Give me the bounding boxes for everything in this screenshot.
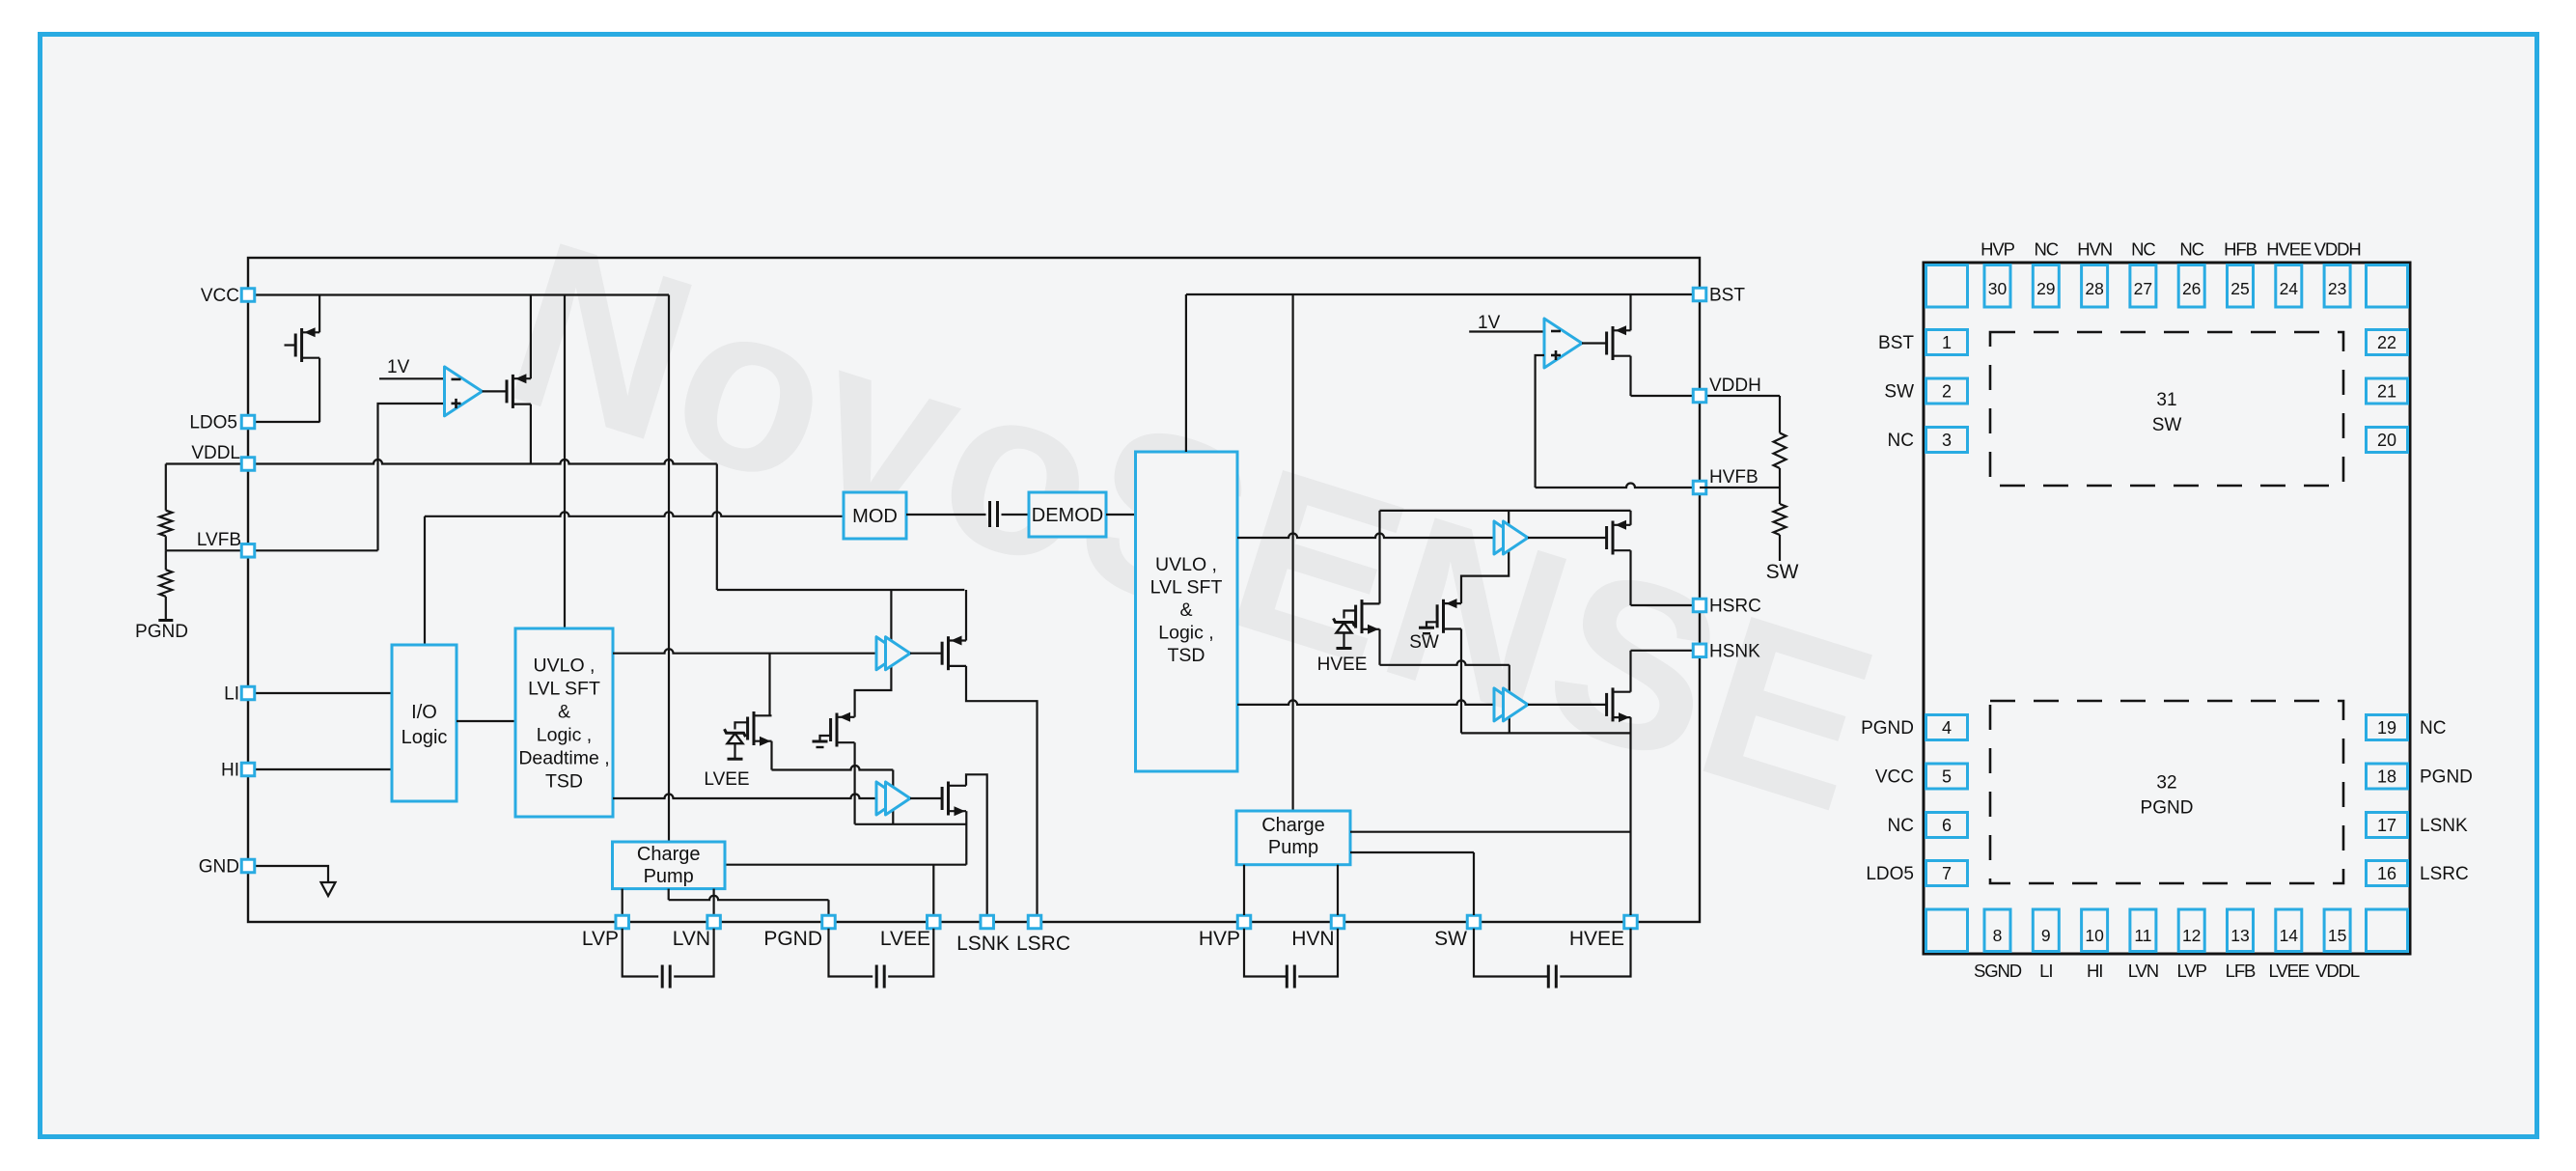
wire M4 source down [965, 811, 967, 865]
wire HSRC [1631, 604, 1701, 606]
svg-text:LSRC: LSRC [1016, 933, 1070, 955]
PGND terminal bar [158, 619, 173, 622]
transistor M3 source driver [941, 642, 944, 665]
svg-text:&: & [558, 702, 570, 723]
wire BST down to UVLO2 [1185, 294, 1187, 452]
buffer B3 [1494, 521, 1518, 554]
svg-text:PGND: PGND [2420, 767, 2473, 788]
pin 28 HVN (top) [2082, 265, 2108, 308]
svg-text:23: 23 [2328, 279, 2346, 298]
pin GND [241, 859, 255, 873]
svg-text:Charge: Charge [1261, 815, 1325, 836]
wire M1H source to lower rail start [1378, 629, 1380, 665]
pin 29 NC (top) [2033, 265, 2059, 308]
wire R2 source to HVEE pin [1629, 717, 1631, 915]
UVLO2 lower output line [1237, 700, 1494, 705]
pin 8 SGND (bottom) [1984, 909, 2010, 952]
wire U1 output to M2 gate [483, 390, 508, 392]
svg-text:8: 8 [1993, 926, 2003, 945]
pin 23 VDDH (top) [2324, 265, 2350, 308]
svg-text:PGND: PGND [2141, 798, 2194, 819]
svg-text:1V: 1V [387, 357, 410, 377]
wire B2 to M4 gate [910, 797, 942, 799]
svg-text:Charge: Charge [637, 844, 701, 865]
resistor R_HV1 [1774, 433, 1787, 469]
UVLO1 lower output line [613, 795, 876, 798]
wire HVFB to R_HV2 [1700, 487, 1780, 488]
svg-text:LVN: LVN [2128, 961, 2158, 981]
svg-text:HSNK: HSNK [1709, 641, 1760, 661]
zener D2 HVEE clamp [1344, 611, 1356, 619]
upper rail VDDH for driver [1380, 510, 1631, 512]
pin 27 NC (top) [2130, 265, 2156, 308]
svg-text:3: 3 [1942, 431, 1952, 450]
svg-text:LVN: LVN [673, 928, 710, 950]
svg-text:NC: NC [2179, 239, 2203, 260]
svg-text:HI: HI [2087, 961, 2102, 981]
svg-text:&: & [1179, 599, 1192, 621]
svg-text:LVEE: LVEE [2269, 961, 2310, 981]
transistor M1L with zener clamp [746, 717, 749, 740]
transistor M2 [506, 379, 509, 403]
buffer B4 [1494, 688, 1518, 721]
svg-text:LDO5: LDO5 [189, 413, 237, 433]
wire LDO5 [248, 421, 320, 423]
capacitor C2 PGND-LVEE [829, 929, 873, 977]
pin HVEE [1624, 915, 1638, 929]
pin 18 (right) [2367, 764, 2408, 789]
svg-text:5: 5 [1942, 767, 1952, 787]
package outline [1924, 263, 2410, 954]
transistor R2 sink driver [1605, 693, 1608, 716]
svg-text:22: 22 [2377, 333, 2396, 352]
svg-text:20: 20 [2377, 431, 2396, 450]
svg-text:LVL SFT: LVL SFT [1150, 577, 1223, 599]
svg-text:Logic: Logic [402, 727, 448, 748]
pin 25 HFB (top) [2228, 265, 2254, 308]
svg-text:VCC: VCC [1875, 767, 1914, 788]
pin 5 VCC (left) [1926, 764, 1968, 789]
svg-text:1: 1 [1942, 333, 1952, 352]
wire CP1 to LVN [712, 889, 714, 915]
svg-text:HI: HI [221, 761, 239, 781]
wire rail down to buffer B1 supply [855, 590, 892, 717]
svg-text:28: 28 [2085, 279, 2103, 298]
pin 6 NC (left) [1926, 813, 1968, 838]
svg-text:Pump: Pump [644, 866, 694, 887]
lower supply rail [855, 823, 967, 825]
svg-text:19: 19 [2377, 718, 2396, 738]
wire GND to ground symbol [248, 866, 328, 882]
MOD input line [425, 512, 844, 516]
resistor R_LV2 [159, 570, 172, 597]
pin 19 (right) [2367, 715, 2408, 740]
wire VDDL [166, 460, 717, 464]
svg-text:LVFB: LVFB [197, 530, 241, 550]
svg-text:HFB: HFB [2224, 239, 2257, 260]
corner pad bottom-right [2367, 909, 2408, 952]
buffer B2 [876, 782, 900, 815]
capacitor C3 HVP-HVN [1244, 929, 1287, 977]
wire LVFB to R_LV2 [165, 550, 167, 570]
pin VCC [241, 289, 255, 302]
svg-text:SW: SW [2152, 415, 2182, 435]
pin 3 NC (left) [1926, 428, 1968, 453]
svg-text:VDDH: VDDH [2314, 239, 2361, 260]
svg-text:Pump: Pump [1268, 837, 1318, 858]
svg-text:HSRC: HSRC [1709, 597, 1761, 617]
wire VDDL stub to divider [165, 464, 167, 511]
wire VCC drop to UVLO block [564, 295, 566, 629]
svg-text:GND: GND [199, 857, 239, 878]
buffer B2 supply drop [892, 770, 894, 824]
svg-text:TSD: TSD [1168, 645, 1205, 666]
lower supply rail right [1461, 732, 1631, 734]
svg-text:9: 9 [2041, 926, 2051, 945]
svg-text:32: 32 [2156, 773, 2176, 794]
pin HI [241, 763, 255, 776]
svg-text:14: 14 [2280, 926, 2299, 945]
wire I/O logic top to MOD line [424, 516, 426, 645]
svg-text:LVEE: LVEE [704, 769, 749, 790]
wire M4 drain to LSNK [966, 774, 987, 915]
wire BST rail [1186, 293, 1700, 295]
pin VDDH [1693, 389, 1706, 403]
wire M2L source down [853, 742, 855, 824]
svg-text:Deadtime ,: Deadtime , [518, 748, 609, 769]
svg-text:HVEE: HVEE [1569, 928, 1624, 950]
comparator U1 [445, 367, 483, 416]
pin 13 LFB (bottom) [2228, 909, 2254, 952]
svg-text:NC: NC [1888, 431, 1914, 451]
1V reference into comparator U2 [1469, 330, 1544, 332]
wire CP2 to HVP [1243, 865, 1245, 915]
svg-text:HVEE: HVEE [2266, 239, 2312, 260]
svg-text:7: 7 [1942, 864, 1952, 883]
pin LVEE [928, 915, 941, 929]
pin 1 BST (left) [1926, 330, 1968, 355]
ground symbol at GND [321, 882, 336, 896]
pin SW [1467, 915, 1481, 929]
svg-text:BST: BST [1709, 286, 1745, 306]
UVLO2 upper output line [1237, 534, 1494, 539]
comparator U2 [1544, 319, 1582, 368]
Charge Pump CP1 block [613, 842, 726, 889]
svg-text:VCC: VCC [201, 286, 239, 306]
pin HSNK [1693, 644, 1706, 657]
svg-text:HVP: HVP [1199, 928, 1240, 950]
svg-text:15: 15 [2328, 926, 2346, 945]
pin HVN [1331, 915, 1344, 929]
pin 26 NC (top) [2178, 265, 2204, 308]
svg-text:29: 29 [2036, 279, 2055, 298]
wire HVFB to U2 plus input [1536, 355, 1544, 488]
wire M1L drain to input line [768, 654, 770, 716]
wire HSNK [1631, 650, 1701, 652]
pin 11 LVN (bottom) [2130, 909, 2156, 952]
corner pad top-left [1926, 265, 1968, 308]
svg-text:HVEE: HVEE [1317, 655, 1368, 675]
pin LDO5 [241, 415, 255, 429]
svg-text:16: 16 [2377, 864, 2396, 883]
pin 12 LVP (bottom) [2178, 909, 2204, 952]
svg-text:4: 4 [1942, 718, 1952, 738]
pin HVP [1237, 915, 1251, 929]
svg-text:MOD: MOD [852, 506, 898, 527]
wire B3 to R1 gate [1528, 537, 1607, 539]
svg-text:10: 10 [2085, 926, 2104, 945]
buffer supply rail mid [1380, 660, 1510, 665]
wire HI [248, 768, 392, 770]
pin BST [1693, 288, 1706, 301]
gate SW of M2H [1426, 622, 1437, 627]
wire VDDL drop to upper rail [716, 464, 718, 591]
svg-text:TSD: TSD [545, 771, 583, 793]
svg-text:30: 30 [1988, 279, 2008, 298]
capacitor C4 SW-HVEE [1474, 929, 1548, 977]
svg-text:Logic ,: Logic , [537, 725, 592, 746]
wire CP2 out to HVEE line [1350, 831, 1631, 833]
svg-text:24: 24 [2280, 279, 2299, 298]
svg-text:VDDL: VDDL [191, 443, 240, 463]
wire DEMOD to UVLO2 [1106, 514, 1136, 516]
svg-text:LSRC: LSRC [2420, 864, 2469, 884]
SW terminal stub [1779, 535, 1781, 561]
svg-text:18: 18 [2377, 767, 2396, 787]
wire CP1 to LVP [622, 889, 623, 915]
svg-text:LDO5: LDO5 [1866, 864, 1914, 884]
wire divider middle [165, 536, 167, 550]
wire CP2 out to SW pin [1350, 851, 1474, 853]
svg-text:UVLO ,: UVLO , [534, 655, 596, 677]
pin 30 HVP (top) [1984, 265, 2010, 308]
pin 20 (right) [2367, 428, 2408, 453]
svg-text:LI: LI [224, 684, 239, 705]
transistor M4 sink driver [941, 787, 944, 810]
wire rail to R1 drain [1629, 511, 1631, 525]
wire B4 to R2 gate [1528, 704, 1607, 706]
svg-text:6: 6 [1942, 816, 1952, 835]
UVLO2 block [1136, 452, 1238, 771]
pin LI [241, 686, 255, 700]
pin LVFB [241, 544, 255, 558]
wire I/O logic to UVLO1 [457, 720, 515, 722]
pin 16 (right) [2367, 861, 2408, 886]
buffer B1 [876, 637, 900, 670]
wire VCC drop to charge pump [668, 295, 670, 843]
wire R1 source to HSRC [1629, 550, 1631, 605]
isolation capacitor C_ISO [906, 514, 986, 516]
capacitor C1 LVP-LVN [623, 929, 659, 977]
wire BST down to CP2 [1291, 294, 1293, 811]
pin 22 (right) [2367, 330, 2408, 355]
pad 31 SW dashed region [1990, 332, 2343, 486]
wire to PGND bar [165, 597, 167, 621]
svg-text:DEMOD: DEMOD [1032, 505, 1103, 526]
wire LVEE drop [932, 865, 934, 915]
pin 21 (right) [2367, 378, 2408, 404]
wire CP2 to HVN [1337, 865, 1339, 915]
UVLO1 upper output line [613, 649, 876, 654]
svg-text:SW: SW [1434, 928, 1467, 950]
pin 10 HI (bottom) [2082, 909, 2108, 952]
corner pad top-right [2367, 265, 2408, 308]
wire LVFB to comparator plus input [166, 549, 378, 551]
pin 4 PGND (left) [1926, 715, 1968, 740]
wire R2 drain to HSNK [1629, 651, 1631, 692]
svg-text:I/O: I/O [411, 702, 437, 723]
Charge Pump CP2 block [1236, 811, 1350, 865]
svg-text:VDDH: VDDH [1709, 376, 1761, 396]
transistor R1 source driver [1605, 526, 1608, 549]
MOD block [844, 492, 906, 539]
wire M3 source to LSRC [966, 666, 1038, 915]
svg-text:NC: NC [2420, 718, 2446, 739]
buffer B4 supply drop [1509, 665, 1510, 734]
svg-text:UVLO ,: UVLO , [1155, 554, 1217, 575]
svg-text:Logic ,: Logic , [1158, 623, 1213, 644]
svg-text:LFB: LFB [2226, 961, 2256, 981]
wire HVFB [1536, 484, 1700, 488]
transistor M1H with zener clamp [1354, 605, 1357, 628]
1V reference line into comparator U1 [379, 377, 445, 379]
svg-text:11: 11 [2134, 926, 2151, 945]
transistor M2L [829, 718, 832, 741]
wire LI [248, 692, 392, 694]
svg-text:12: 12 [2182, 926, 2201, 945]
wire M1L source rail [770, 741, 772, 770]
svg-text:HVFB: HVFB [1709, 467, 1759, 488]
svg-text:NC: NC [2035, 239, 2059, 260]
pin LSNK [981, 915, 993, 929]
gate driver IC boundary box [248, 258, 1700, 922]
svg-text:BST: BST [1878, 333, 1914, 353]
UVLO1 block [515, 628, 613, 817]
pin VDDL [241, 458, 255, 471]
pin 2 SW (left) [1926, 378, 1968, 404]
pin 9 LI (bottom) [2033, 909, 2059, 952]
pin HVFB [1693, 481, 1706, 494]
svg-text:SW: SW [1884, 382, 1914, 403]
svg-text:LVP: LVP [2177, 961, 2207, 981]
wire VDDH [1631, 395, 1781, 397]
svg-text:13: 13 [2230, 926, 2249, 945]
svg-text:HVP: HVP [1980, 239, 2014, 260]
I/O Logic block [392, 645, 457, 801]
wire B1 to M3 gate [910, 653, 942, 655]
svg-text:SW: SW [1766, 561, 1799, 583]
wire CP1 to PGND [668, 889, 670, 901]
transistor M1 LDO pass FET [294, 334, 297, 357]
pin HSRC [1693, 599, 1706, 612]
pin LVP [616, 915, 629, 929]
svg-text:HVN: HVN [1291, 928, 1334, 950]
svg-text:PGND: PGND [763, 928, 822, 950]
svg-text:PGND: PGND [135, 622, 188, 642]
svg-text:LI: LI [2039, 961, 2052, 981]
svg-text:SGND: SGND [1974, 961, 2022, 981]
upper rail from VDDL [717, 589, 965, 591]
pin PGND [822, 915, 836, 929]
charge pump CP1 output rail [725, 864, 966, 866]
wire rail down left side [1378, 511, 1380, 604]
pin LSRC [1028, 915, 1041, 929]
svg-text:17: 17 [2377, 816, 2396, 835]
pin 17 (right) [2367, 813, 2408, 838]
svg-text:LVP: LVP [582, 928, 619, 950]
wire U2 output to R0 gate [1582, 342, 1607, 344]
transistor M2H SW clamp [1436, 604, 1439, 627]
pad 32 PGND dashed region [1990, 701, 2343, 883]
corner pad bottom-left [1926, 909, 1968, 952]
pin 15 VDDL (bottom) [2324, 909, 2350, 952]
svg-text:NC: NC [1888, 816, 1914, 836]
svg-text:25: 25 [2230, 279, 2249, 298]
svg-text:1V: 1V [1478, 313, 1501, 333]
svg-text:26: 26 [2182, 279, 2201, 298]
NOVOSENSE watermark [482, 191, 1903, 862]
svg-text:LSNK: LSNK [956, 933, 1010, 955]
svg-text:LVEE: LVEE [880, 928, 930, 950]
zener D1 LVEE clamp [735, 722, 748, 729]
svg-text:NC: NC [2131, 239, 2155, 260]
svg-text:SW: SW [1409, 632, 1439, 653]
svg-text:2: 2 [1942, 382, 1952, 402]
svg-text:27: 27 [2134, 279, 2152, 298]
pin 14 LVEE (bottom) [2276, 909, 2302, 952]
pin LVN [707, 915, 721, 929]
wire VCC [248, 293, 669, 295]
svg-text:HVN: HVN [2077, 239, 2112, 260]
svg-text:LVL SFT: LVL SFT [528, 679, 600, 700]
resistor R_HV2 [1774, 504, 1787, 535]
svg-text:LSNK: LSNK [2420, 816, 2468, 836]
svg-text:PGND: PGND [1861, 718, 1914, 739]
svg-text:VDDL: VDDL [2315, 961, 2360, 981]
resistor R_LV1 [159, 511, 172, 537]
gate ground of M2L [820, 736, 831, 741]
pin 7 LDO5 (left) [1926, 861, 1968, 886]
transistor R0 bootstrap FET [1605, 332, 1608, 355]
wire M2H source down [1460, 629, 1462, 734]
svg-text:21: 21 [2377, 382, 2396, 402]
wire rail to buffer B3 supply [1461, 511, 1509, 603]
svg-text:31: 31 [2156, 390, 2176, 410]
pin 24 HVEE (top) [2276, 265, 2302, 308]
DEMOD block [1029, 492, 1106, 537]
